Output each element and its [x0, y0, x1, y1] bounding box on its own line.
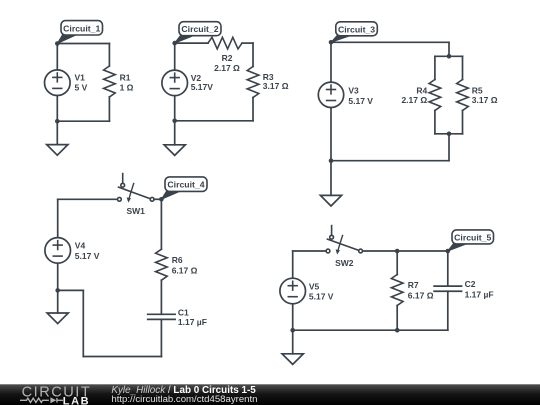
svg-text:C2: C2	[465, 279, 476, 289]
svg-text:5.17 V: 5.17 V	[348, 96, 373, 106]
svg-text:2.17 Ω: 2.17 Ω	[214, 63, 240, 73]
svg-text:3.17 Ω: 3.17 Ω	[472, 95, 498, 105]
svg-text:5.17 V: 5.17 V	[75, 251, 100, 261]
svg-text:V4: V4	[75, 241, 86, 251]
svg-text:6.17 Ω: 6.17 Ω	[408, 290, 434, 300]
svg-text:SW1: SW1	[126, 206, 145, 216]
svg-text:1.17 µF: 1.17 µF	[178, 317, 207, 327]
svg-text:6.17 Ω: 6.17 Ω	[172, 265, 198, 275]
svg-text:2.17 Ω: 2.17 Ω	[401, 95, 427, 105]
svg-text:1.17 µF: 1.17 µF	[465, 289, 494, 299]
svg-text:V1: V1	[75, 73, 86, 83]
svg-text:V3: V3	[348, 86, 359, 96]
svg-text:Circuit_4: Circuit_4	[167, 180, 204, 190]
svg-text:Circuit_2: Circuit_2	[181, 24, 218, 34]
svg-text:3.17 Ω: 3.17 Ω	[263, 81, 289, 91]
svg-text:http://circuitlab.com/ctd458ay: http://circuitlab.com/ctd458ayrentn	[111, 394, 257, 405]
svg-text:V5: V5	[309, 281, 320, 291]
svg-text:5.17 V: 5.17 V	[309, 291, 334, 301]
svg-text:Circuit_1: Circuit_1	[63, 23, 100, 33]
svg-text:R7: R7	[408, 280, 419, 290]
svg-text:SW2: SW2	[335, 258, 354, 268]
svg-text:1 Ω: 1 Ω	[120, 83, 134, 93]
svg-text:R6: R6	[172, 255, 183, 265]
svg-text:5.17V: 5.17V	[191, 82, 214, 92]
svg-text:LAB: LAB	[63, 395, 90, 405]
svg-text:Circuit_3: Circuit_3	[338, 24, 375, 34]
svg-text:R2: R2	[222, 53, 233, 63]
svg-text:Circuit_5: Circuit_5	[454, 232, 491, 242]
svg-text:5 V: 5 V	[75, 83, 88, 93]
svg-text:C1: C1	[178, 307, 189, 317]
svg-text:R1: R1	[120, 73, 131, 83]
